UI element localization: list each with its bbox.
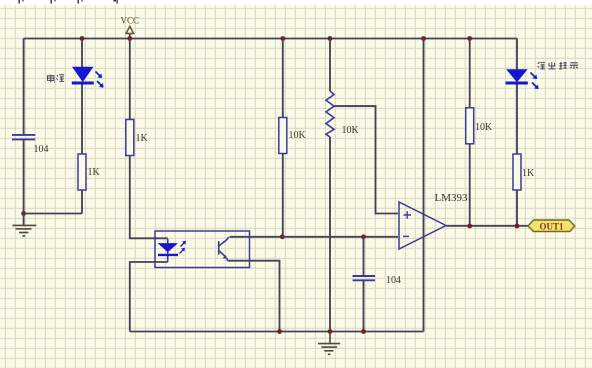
wire opto emitter down — [228, 261, 280, 332]
optocoupler phototransistor — [219, 237, 229, 261]
node left ground junction — [21, 211, 26, 216]
node collector junction — [280, 234, 285, 239]
wire pot bottom to ground rail — [329, 137, 331, 332]
op-amp U1 body — [399, 202, 446, 249]
optocoupler U2 box — [155, 231, 250, 268]
label 输出指示 — [538, 62, 579, 69]
ground left — [13, 225, 37, 236]
LED D1 power indicator — [72, 67, 104, 87]
node cap C2 bottom junction — [361, 329, 366, 334]
optocoupler LED — [158, 239, 178, 262]
wire op-amp output — [446, 225, 528, 227]
connector OUT1 — [528, 220, 575, 232]
label 电源 — [48, 75, 65, 83]
wire D2 cathode to R5 — [516, 85, 518, 155]
node cap C2 top junction — [361, 234, 366, 239]
wire op-amp power rail pin — [423, 39, 425, 332]
svg-text:10K: 10K — [289, 130, 307, 141]
op-amp minus sign — [403, 235, 409, 237]
node R4 output junction — [467, 224, 472, 229]
ground middle — [318, 332, 340, 355]
potentiometer RP 10K zigzag — [326, 91, 334, 137]
wire opto collector to node — [230, 236, 283, 238]
wire ground rail bottom — [130, 331, 424, 333]
node D1 top junction — [80, 36, 85, 41]
node R4 top junction — [467, 36, 472, 41]
node R5 output junction — [515, 224, 520, 229]
wire R3 top — [282, 39, 284, 118]
wire pot wiper to non-inverting input — [334, 106, 398, 213]
node ground rail pot junction — [328, 329, 333, 334]
power VCC symbol — [121, 16, 140, 39]
wire R3 bottom to collector node — [282, 154, 284, 237]
wire R4 top — [469, 39, 471, 108]
node pot top junction — [328, 36, 333, 41]
resistor R3 10K body — [279, 118, 287, 154]
wire R1 to opto LED anode — [130, 156, 168, 239]
resistor R4 10K body — [466, 108, 474, 144]
svg-text:104: 104 — [386, 275, 401, 286]
svg-text:1K: 1K — [522, 168, 535, 179]
svg-text:1K: 1K — [136, 133, 149, 144]
capacitor C1 104 plates — [12, 135, 35, 140]
resistor R1 1K body — [126, 120, 134, 156]
cropped text fragments top edge — [19, 0, 118, 4]
node VCC junction — [127, 36, 132, 41]
resistor R2 1K body — [78, 154, 86, 190]
wire pot top — [329, 39, 331, 92]
optocoupler emitter arrowhead — [223, 255, 228, 259]
wire D2 anode from top rail — [516, 39, 518, 70]
wire R5 bottom to output — [516, 190, 518, 226]
resistor R5 1K body — [513, 154, 521, 190]
svg-text:VCC: VCC — [121, 16, 140, 26]
svg-text:OUT1: OUT1 — [540, 221, 565, 231]
node R3 top junction — [280, 36, 285, 41]
wire D1 anode — [81, 39, 83, 68]
LED D2 output indicator — [506, 70, 539, 89]
optocoupler light arrows — [180, 241, 187, 254]
wire left branch vertical upper — [23, 39, 25, 135]
capacitor C2 104 plates — [353, 276, 376, 280]
op-amp plus sign — [404, 211, 412, 218]
svg-text:10K: 10K — [342, 125, 360, 136]
svg-text:LM393: LM393 — [435, 192, 469, 204]
wire left ground horizontal to R2 — [24, 214, 82, 226]
wire C2 top — [363, 237, 365, 275]
svg-text:1K: 1K — [88, 167, 101, 178]
wire C2 bottom — [363, 280, 365, 331]
wire left branch vertical lower — [23, 139, 25, 213]
wire D1 cathode to R2 — [81, 85, 83, 155]
wire VCC to R1 — [129, 39, 131, 120]
wire R2 bottom to ground node — [81, 190, 83, 214]
node op-amp V+ top junction — [421, 36, 426, 41]
node emitter bottom junction — [277, 329, 282, 334]
svg-text:10K: 10K — [475, 122, 493, 133]
wire R4 bottom to output — [469, 144, 471, 226]
wire top rail — [24, 38, 517, 40]
svg-text:104: 104 — [34, 144, 49, 155]
wire opto cathode return — [130, 262, 168, 332]
wire inverting input — [282, 236, 398, 238]
